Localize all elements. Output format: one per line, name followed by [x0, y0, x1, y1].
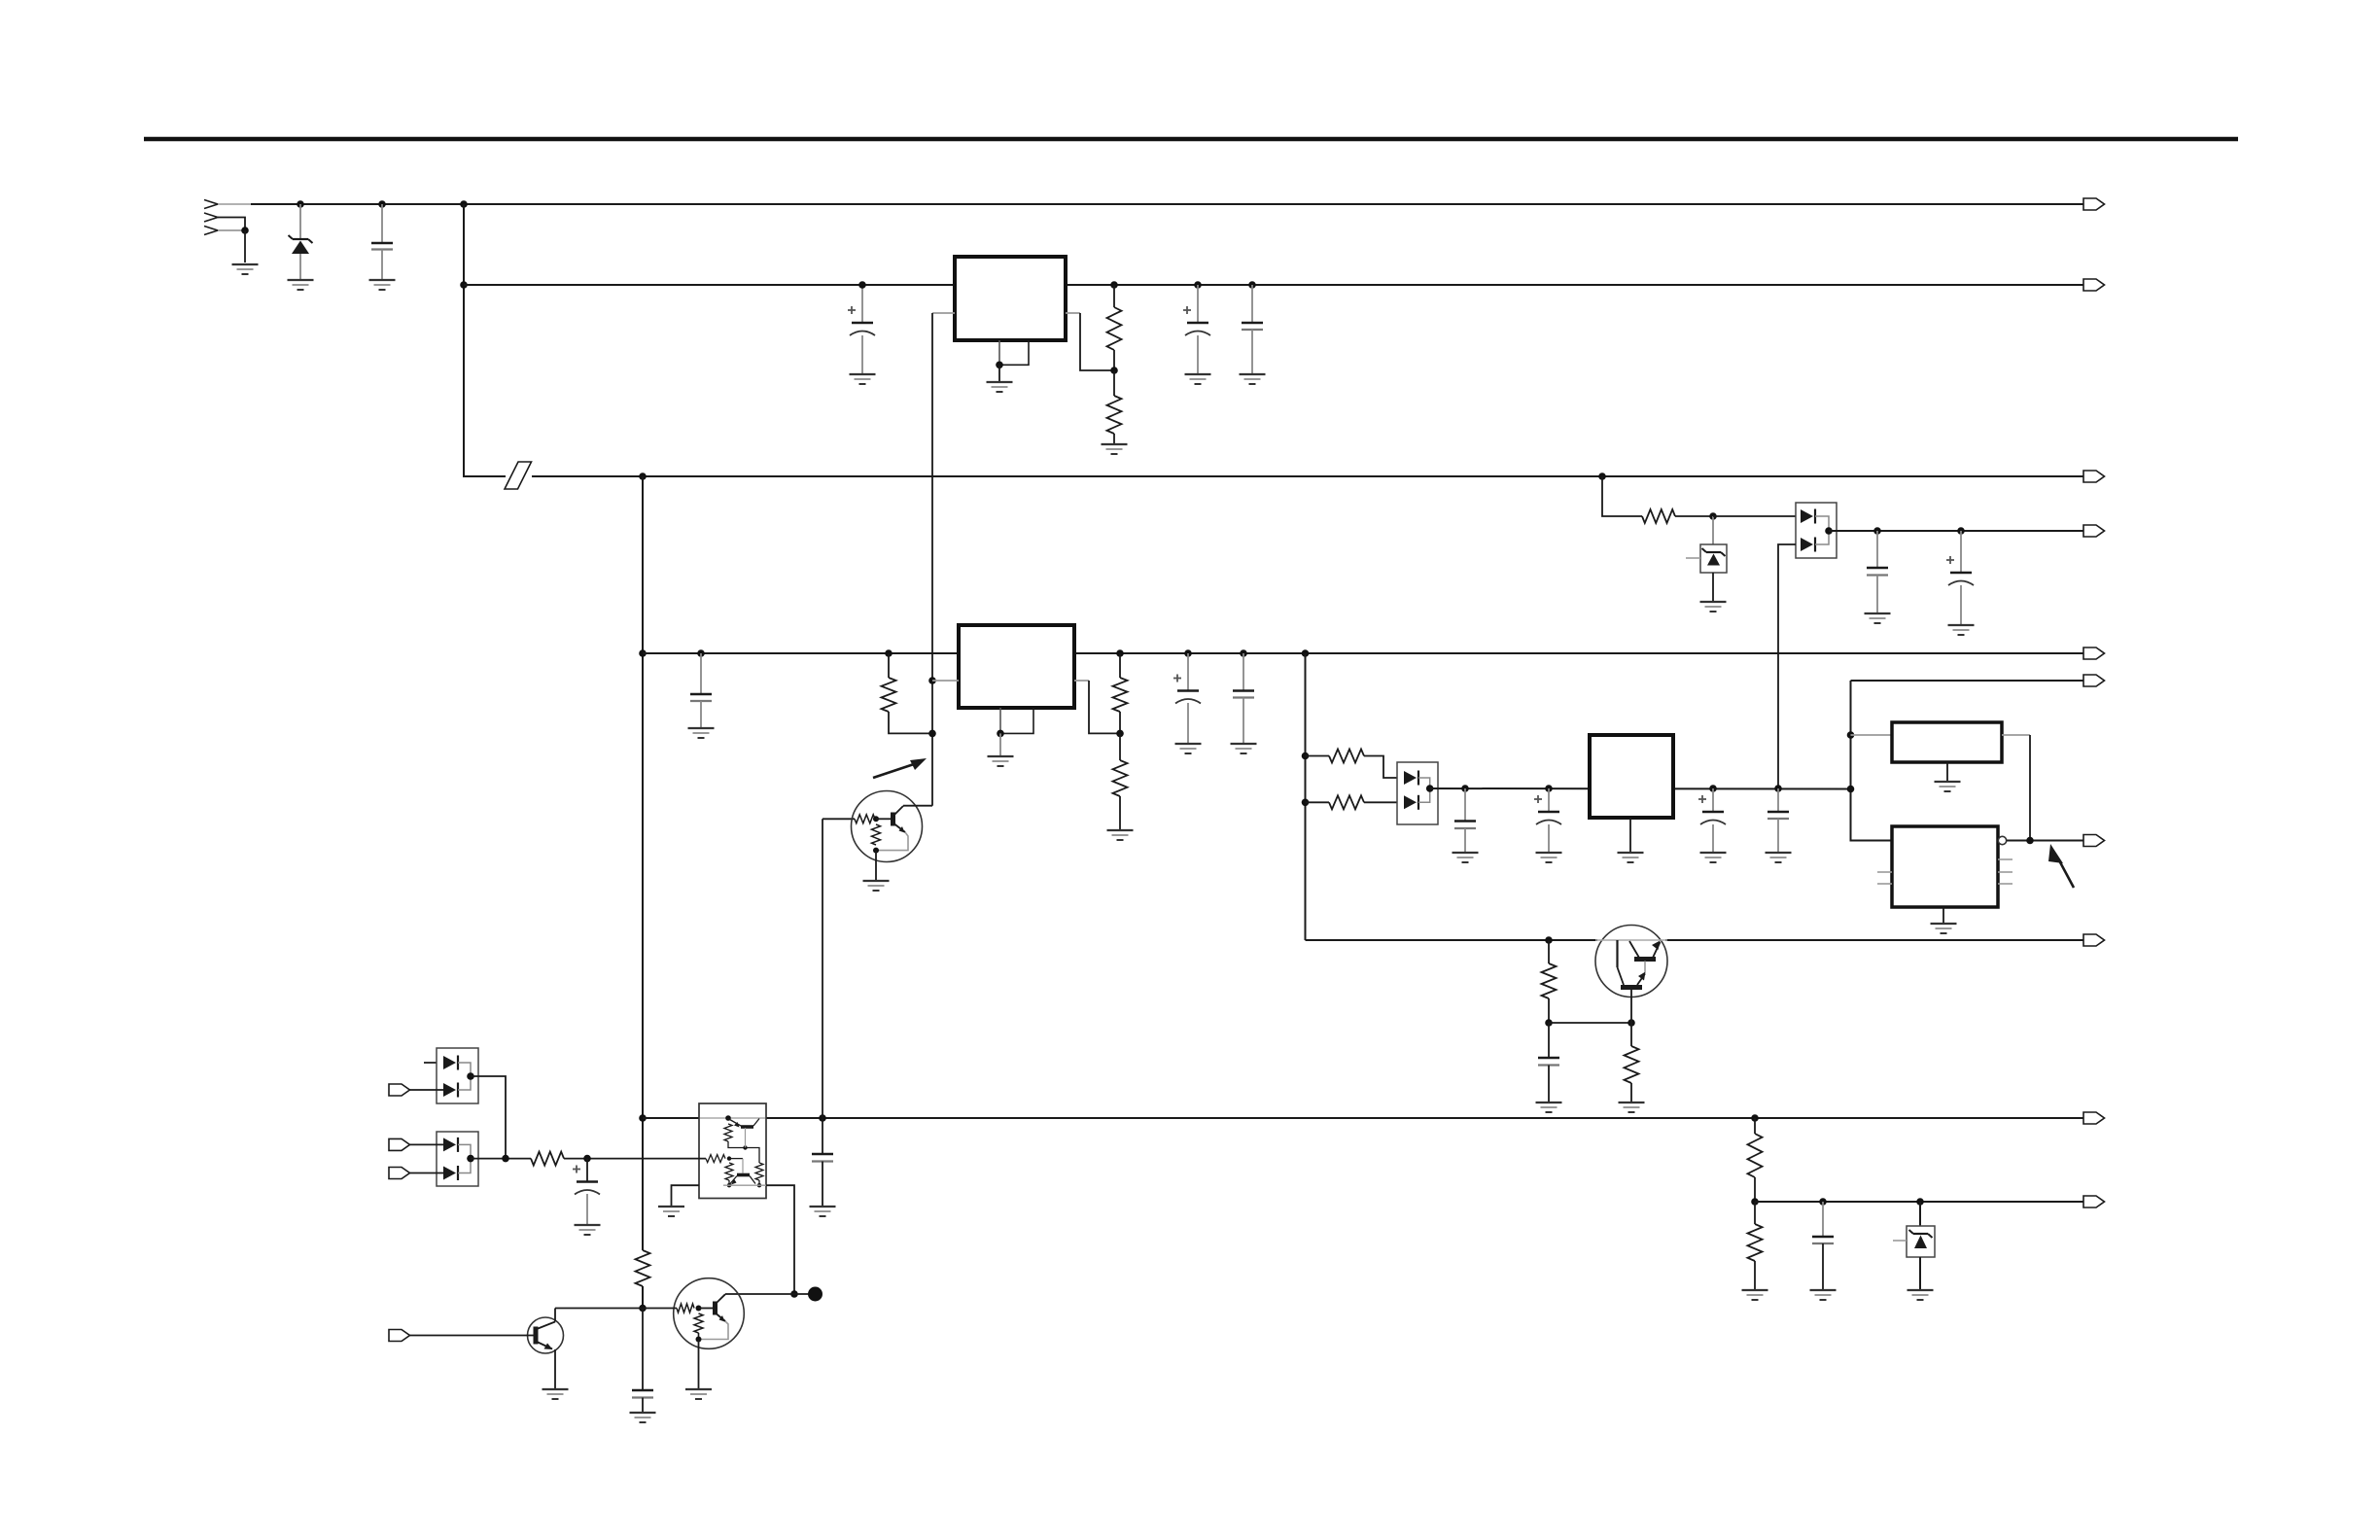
node rail1236-C15: [1819, 1198, 1827, 1206]
wire trunk x846: [822, 819, 823, 1154]
wire node-node: [1549, 1022, 1631, 1024]
ground C13: [1766, 853, 1792, 862]
ground U1: [987, 382, 1013, 392]
capacitor C16: [812, 1154, 833, 1162]
ground U2: [988, 756, 1014, 766]
capacitor C10 lead: [1464, 788, 1466, 822]
regulator U3 box: [1590, 735, 1673, 818]
ground C11: [1536, 853, 1562, 862]
wire tap2: [1306, 801, 1330, 803]
node rail5-x1342: [1302, 649, 1310, 657]
wire R12-U4: [564, 1158, 706, 1160]
node rail5 start: [639, 649, 647, 657]
wire C7-gnd: [700, 701, 702, 727]
capacitor C5: [1867, 568, 1888, 576]
node R5 divider: [1116, 730, 1124, 738]
zener Z3 box: [1907, 1226, 1935, 1257]
wire C12-gnd: [1712, 824, 1714, 852]
wire sense line x959: [931, 313, 933, 806]
capacitor C13: [1767, 812, 1789, 819]
node rail1150 start: [639, 1114, 647, 1122]
wire rail 2: [464, 284, 2083, 286]
capacitor C9 lead: [1242, 653, 1244, 691]
wire U2 in stub: [932, 680, 959, 682]
zener D1 lead: [299, 204, 301, 239]
ground C2: [850, 374, 876, 384]
wire line546: [1829, 530, 2083, 532]
node line546-C6: [1957, 527, 1965, 535]
node rail5-C9: [1240, 649, 1247, 657]
wire U1 adj path: [1080, 313, 1114, 370]
capacitor C14 lead: [1548, 1023, 1550, 1058]
resistor R1: [1107, 307, 1122, 350]
capacitor C4: [1242, 323, 1263, 330]
wire R7a-D6a: [1364, 756, 1406, 779]
diode pack D7 box: [437, 1048, 478, 1103]
transistor Q4: [528, 1309, 564, 1389]
wire R10-rail1236: [1754, 1177, 1756, 1202]
capacitor C7: [690, 694, 712, 701]
diode D5b: [1801, 538, 1815, 552]
wire U1 adj stub: [1066, 312, 1080, 314]
wire D7a stub: [424, 1062, 443, 1064]
ground C16: [810, 1207, 836, 1216]
output arrow OUT10: [2083, 1196, 2105, 1207]
output arrow OUT6: [2083, 675, 2105, 686]
output arrow OUT2: [2083, 279, 2105, 291]
wire D7 out: [471, 1076, 506, 1159]
zener Z2 box: [1700, 544, 1727, 573]
diode D6a: [1404, 771, 1418, 786]
capacitor C1: [371, 243, 393, 250]
ground R9: [1619, 1102, 1645, 1112]
wire line811: [1430, 787, 1851, 790]
wire rail 5: [643, 652, 2083, 654]
node rail5-R5a: [1116, 649, 1124, 657]
wire rail 1236: [1755, 1201, 2083, 1203]
resistor R9: [1625, 1046, 1639, 1083]
wire U5 gnd pin: [1946, 762, 1948, 781]
wire C16-gnd: [822, 1162, 823, 1207]
wire branch drop: [1602, 476, 1642, 516]
ground R5b: [1107, 830, 1134, 840]
diode D8b: [443, 1166, 458, 1180]
diode D6b: [1404, 795, 1418, 810]
input arrow IN3: [389, 1168, 443, 1179]
capacitor C11 polarized: [1534, 795, 1561, 824]
ground C3: [1185, 374, 1211, 384]
wire C3-gnd: [1197, 335, 1199, 373]
wire R5b-gnd: [1119, 796, 1121, 829]
wire U2 gnd down: [999, 733, 1001, 755]
node line1331: [790, 1290, 798, 1298]
capacitor C10: [1454, 822, 1476, 829]
wire U5 in stub: [1851, 734, 1893, 736]
capacitor C5 lead: [1876, 531, 1878, 568]
wire trunk x477: [464, 204, 506, 476]
pin U6 left stub 2: [1877, 883, 1892, 885]
node x1903-U5: [1847, 731, 1855, 739]
capacitor C6 polarized lead: [1960, 531, 1962, 573]
wire D7 join: [458, 1063, 471, 1090]
capacitor C15 lead: [1822, 1202, 1824, 1237]
resistor R5a: [1113, 678, 1128, 712]
ground C18: [630, 1413, 656, 1422]
node line811-C10: [1461, 785, 1469, 792]
ground C8: [1175, 744, 1202, 753]
input arrow IN4: [389, 1330, 536, 1342]
ground C9: [1231, 744, 1257, 753]
ground C14: [1536, 1102, 1562, 1112]
wire C5-gnd: [1876, 576, 1878, 613]
wire R3-node: [1675, 515, 1713, 517]
node rail5-C8: [1184, 649, 1192, 657]
resistor R7a: [1329, 750, 1364, 763]
input arrow IN1: [389, 1084, 443, 1096]
node line811-C13: [1774, 785, 1782, 792]
ground D1: [288, 280, 314, 290]
node rail1150-x846: [819, 1114, 826, 1122]
wire tap1: [1306, 755, 1330, 757]
ground C10: [1452, 853, 1479, 862]
wire node-D5: [1713, 515, 1796, 517]
node U2 gnd join: [997, 730, 1004, 738]
wire rail 967 right: [1665, 939, 2083, 941]
node tap R7b: [1302, 799, 1310, 807]
capacitor C15: [1812, 1237, 1834, 1243]
node U1 gnd join: [996, 362, 1003, 369]
wire Z2 lead: [1712, 516, 1714, 544]
resistor R5b: [1113, 760, 1128, 796]
wire C15-gnd: [1822, 1243, 1824, 1289]
switch SW1: [505, 462, 532, 489]
pin U6 right stub 3: [1998, 883, 2012, 885]
wire U1 gnd pin b: [999, 340, 1029, 365]
resistor R2 lead: [1113, 370, 1115, 396]
wire U2 gnd pin a: [999, 708, 1001, 733]
output arrow OUT5: [2083, 647, 2105, 659]
capacitor C8 polarized: [1173, 675, 1201, 704]
capacitor C13 lead: [1777, 788, 1779, 812]
test point TP1: [808, 1287, 822, 1302]
node rail1236 start: [1751, 1198, 1759, 1206]
resistor R11: [1748, 1224, 1763, 1261]
wire C1-gnd: [381, 250, 383, 280]
resistor R5b lead: [1119, 733, 1121, 760]
wire x661 lower: [642, 1309, 644, 1391]
capacitor C17 polarized: [573, 1166, 600, 1195]
ground U5: [1935, 782, 1961, 791]
node D5 out: [1825, 527, 1833, 535]
connector CN1 pin 3: [204, 227, 245, 235]
transistor Q3: [1595, 926, 1667, 1024]
wire D8 out: [471, 1158, 531, 1160]
node x959-754: [928, 730, 936, 738]
wire D5b anode feed: [1778, 544, 1796, 788]
ground C4: [1240, 374, 1266, 384]
transistor Q2: [852, 791, 933, 881]
node D8 out: [467, 1155, 474, 1163]
wire Z3 lead: [1919, 1202, 1921, 1226]
wire C11-gnd: [1548, 824, 1550, 852]
wire U1 gnd down: [998, 365, 1000, 381]
wire C6-gnd: [1960, 585, 1962, 624]
wire R5a-node: [1119, 712, 1121, 733]
ground C7: [688, 728, 715, 738]
capacitor C2 polarized: [848, 306, 875, 335]
wire D5 join: [1815, 516, 1829, 544]
supervisor U6 box: [1892, 826, 1998, 907]
capacitor C6 polarized: [1946, 556, 1974, 585]
wire R1-R2: [1113, 350, 1115, 370]
diode D8a: [443, 1137, 458, 1152]
pin U6 right stub 2: [1998, 871, 2012, 873]
capacitor C9: [1233, 691, 1254, 698]
wire U2 adj stub: [1074, 680, 1089, 682]
capacitor C14: [1538, 1058, 1559, 1066]
wire U6 out: [2007, 840, 2083, 842]
node Q3 emitter join: [1627, 1019, 1635, 1027]
diode pack D8 box: [437, 1132, 478, 1186]
capacitor C12 polarized: [1698, 795, 1726, 824]
capacitor C2 polarized lead: [861, 285, 863, 323]
output arrow OUT7: [2083, 835, 2105, 847]
wire U6 gnd pin: [1942, 907, 1944, 923]
resistor R10: [1748, 1134, 1763, 1177]
node rail3-trunk661: [639, 472, 647, 480]
node tap R7a: [1302, 752, 1310, 760]
ground C12: [1700, 853, 1727, 862]
resistor R10 lead: [1754, 1118, 1756, 1134]
ground Z3: [1907, 1290, 1934, 1300]
node line1346: [639, 1305, 647, 1312]
diode D5a: [1801, 509, 1815, 524]
transistor Q5: [643, 1278, 744, 1388]
wire R13-node: [642, 1286, 644, 1309]
wire rail VIN (top): [251, 203, 2083, 205]
node rail2 start: [460, 281, 468, 289]
input arrow IN2: [389, 1138, 443, 1150]
wire U4 out right: [766, 1185, 794, 1294]
ground Q2: [863, 881, 890, 891]
resistor R13: [636, 1250, 650, 1286]
ground C15: [1810, 1290, 1837, 1300]
node rail1-D1: [297, 200, 304, 208]
node line546-C5: [1873, 527, 1881, 535]
wire D6 join: [1418, 778, 1430, 802]
border rule: [144, 137, 2238, 142]
wire Z2-gnd: [1712, 573, 1714, 601]
wire D8 join: [458, 1144, 471, 1172]
node line811-C11: [1545, 785, 1553, 792]
wire Z3 left stub: [1893, 1240, 1907, 1242]
wire Z2 left stub: [1686, 557, 1700, 559]
node line811-C12: [1709, 785, 1717, 792]
resistor R12: [531, 1152, 564, 1166]
wire trunk x661 upper: [642, 476, 644, 1250]
node R3/Z2: [1709, 512, 1717, 520]
ground CN1: [232, 264, 259, 274]
capacitor C12 polarized lead: [1712, 788, 1714, 812]
output arrow OUT9: [2083, 1112, 2105, 1124]
pin U6 left stub 1: [1877, 871, 1892, 873]
capacitor C4 lead: [1251, 285, 1253, 323]
wire line1346: [555, 1308, 643, 1310]
wire U1 pin2 stub: [932, 312, 955, 314]
zener Z2: [1702, 548, 1726, 566]
resistor R4 lead: [888, 653, 890, 678]
wire C8-gnd: [1187, 703, 1189, 743]
node rail967-R8: [1545, 936, 1553, 944]
resistor R3: [1642, 509, 1675, 523]
wire C9-gnd: [1242, 698, 1244, 744]
wire Z3-gnd: [1919, 1257, 1921, 1289]
diode D7b: [443, 1083, 458, 1098]
wire R9-gnd: [1630, 1083, 1632, 1102]
wire rail 3: [532, 475, 2083, 477]
capacitor C11 polarized lead: [1548, 788, 1550, 812]
wire line1331: [725, 1293, 815, 1295]
ground C17: [575, 1225, 601, 1235]
wire C10-gnd: [1464, 828, 1466, 852]
wire R2-gnd: [1113, 434, 1115, 443]
regulator U1 box: [955, 257, 1066, 340]
node rail2-C4: [1248, 281, 1256, 289]
ground Q5: [685, 1389, 712, 1399]
ground R2: [1102, 444, 1128, 454]
node rail5-R4: [885, 649, 892, 657]
diode D7a: [443, 1056, 458, 1070]
node rail5-C7: [697, 649, 705, 657]
connector CN1 pin 2: [204, 213, 245, 230]
wire C2-gnd: [861, 335, 863, 373]
wire rail 1150: [643, 1117, 2083, 1119]
wire R7b-D6b: [1364, 801, 1406, 803]
ground U3: [1618, 853, 1644, 862]
node rail2-R1: [1110, 281, 1118, 289]
wire R4-node754: [889, 712, 932, 733]
capacitor C7 lead: [700, 653, 702, 694]
wire R11-gnd: [1754, 1261, 1756, 1289]
capacitor C8 polarized lead: [1187, 653, 1189, 691]
wire U2 gnd pin b: [1000, 708, 1033, 733]
wire C14-gnd: [1548, 1066, 1550, 1102]
node R8/C14: [1545, 1019, 1553, 1027]
resistor R1 lead: [1113, 285, 1115, 307]
node x959-700: [928, 677, 936, 684]
node D7/D8 join: [502, 1155, 509, 1163]
capacitor C3 polarized lead: [1197, 285, 1199, 323]
ground R11: [1742, 1290, 1768, 1300]
node rail2-C3: [1194, 281, 1202, 289]
inverter bubble U6: [1998, 836, 2006, 844]
zener D1: [289, 235, 313, 279]
capacitor C3 polarized: [1183, 306, 1210, 335]
ground Q4: [542, 1389, 569, 1399]
zener Z3: [1909, 1230, 1933, 1248]
wire U2 adj path: [1089, 681, 1120, 733]
pin U6 right stub 1: [1998, 858, 2012, 860]
capacitor C17 polarized lead: [586, 1159, 588, 1182]
diode pack D6 box: [1397, 762, 1438, 824]
wire U3 gnd pin: [1629, 818, 1631, 852]
resistor R8: [1542, 963, 1557, 998]
transistor pack U4: [699, 1103, 766, 1199]
node rail1-branch: [460, 200, 468, 208]
wire R8-node: [1548, 998, 1550, 1023]
ground U6: [1931, 924, 1957, 933]
node U6 out: [2026, 837, 2034, 845]
output arrow OUT8: [2083, 934, 2105, 946]
wire U1 gnd pin a: [998, 340, 1000, 365]
resistor R8 lead: [1548, 940, 1550, 963]
wire C13-gnd: [1777, 819, 1779, 852]
resistor R4: [882, 678, 896, 712]
wire C4-gnd: [1251, 330, 1253, 373]
ground Z2: [1700, 602, 1727, 612]
ground C1: [369, 280, 396, 290]
node rail1150-R10: [1751, 1114, 1759, 1122]
resistor R9 lead: [1630, 1023, 1632, 1046]
node pin2/3 junction: [241, 227, 249, 234]
node x1903-line811: [1847, 786, 1855, 793]
node R1/R2 divider: [1110, 367, 1118, 374]
connector CN1 pin 1: [204, 200, 253, 209]
wire U5 out drop: [2029, 735, 2031, 841]
wire C17-gnd: [586, 1194, 588, 1225]
resistor R7b: [1329, 795, 1364, 809]
ground C5: [1865, 613, 1891, 623]
node rail2-C2: [858, 281, 866, 289]
resistor R2: [1107, 396, 1122, 434]
node D7 out: [467, 1072, 474, 1080]
diode pack D5 box: [1796, 503, 1837, 558]
wire rail 967 left: [1306, 939, 1598, 941]
wire trunk x1342: [1305, 653, 1307, 940]
node rail1-C1: [378, 200, 386, 208]
cursor annotation A2: [2048, 844, 2074, 888]
wire CN1 ground stub: [244, 230, 246, 262]
ground U4: [658, 1207, 684, 1216]
timer U5 box: [1892, 722, 2002, 762]
capacitor C1 lead: [381, 204, 383, 243]
wire trunk x1903: [1851, 681, 1893, 841]
wire U5 out stub: [2002, 734, 2030, 736]
node line1191-C17: [583, 1155, 591, 1163]
wire Q2 base feed: [822, 818, 855, 820]
ground C6: [1948, 625, 1975, 635]
regulator U2 box: [959, 625, 1074, 708]
capacitor C18: [632, 1390, 653, 1398]
output arrow OUT4: [2083, 525, 2105, 537]
resistor R5a lead: [1119, 653, 1121, 678]
wire rail 700: [1851, 680, 2084, 682]
resistor R11 lead: [1754, 1202, 1756, 1224]
wire U4 emitter left: [672, 1185, 700, 1206]
node D6 out: [1426, 785, 1434, 792]
wire C18-gnd: [642, 1398, 644, 1413]
output arrow OUT1: [2083, 198, 2105, 210]
node rail3-branch: [1598, 472, 1606, 480]
cursor annotation A1: [873, 758, 927, 778]
node rail1236-Z3: [1916, 1198, 1924, 1206]
output arrow OUT3: [2083, 471, 2105, 482]
